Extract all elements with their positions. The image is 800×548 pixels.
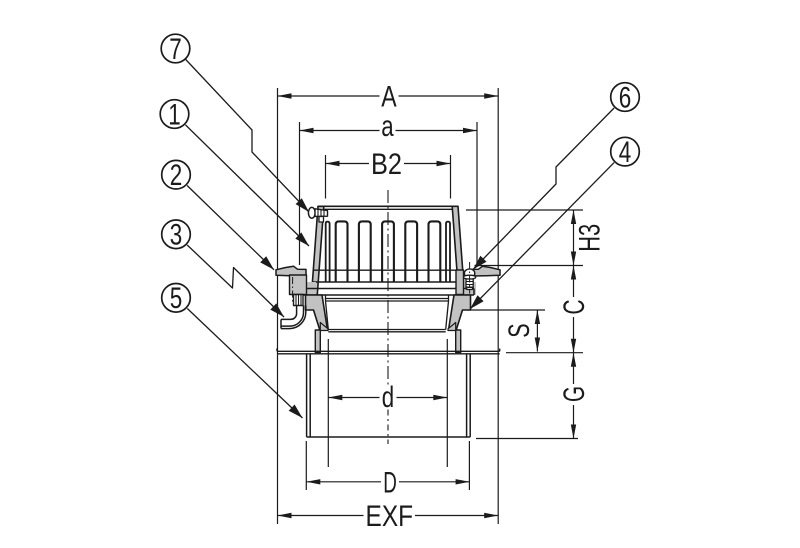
J-hook end cap bbox=[280, 319, 282, 328]
bowl upper step bbox=[326, 298, 449, 300]
extension line left (D) bbox=[305, 441, 307, 490]
J-hook middle contour bbox=[281, 306, 304, 327]
svg-text:d: d bbox=[382, 381, 394, 414]
callout circle 3 bbox=[162, 220, 191, 249]
seat gray right bbox=[460, 282, 476, 295]
roof deck plate bbox=[277, 350, 500, 352]
reference line H3 bottom / C top bbox=[475, 265, 584, 267]
J-hook outer contour bbox=[281, 306, 306, 329]
grate inner band line bbox=[313, 269, 463, 271]
body wall left bbox=[306, 295, 328, 330]
leader line 6 bbox=[473, 108, 614, 270]
grate screw left pin bbox=[319, 217, 324, 223]
grate top rim bbox=[318, 205, 458, 207]
svg-text:D: D bbox=[383, 466, 397, 499]
flange wing right bbox=[470, 266, 500, 276]
svg-text:3: 3 bbox=[170, 219, 183, 252]
leader line 4 bbox=[470, 163, 614, 309]
deck plate lip left bbox=[276, 348, 278, 351]
svg-text:G: G bbox=[558, 386, 591, 402]
spigot foot flare right bbox=[448, 323, 456, 331]
extension line right (A / ExF) bbox=[497, 88, 499, 524]
dimension ExF bbox=[278, 515, 499, 517]
svg-text:2: 2 bbox=[170, 159, 183, 192]
deck plate lip right bbox=[499, 349, 501, 352]
bolt right shaft bbox=[466, 279, 473, 287]
dimension d bbox=[328, 397, 447, 399]
sleeve wall right bbox=[466, 354, 468, 437]
grate slot partial left bbox=[326, 222, 330, 282]
dimension D bbox=[306, 481, 469, 483]
extension line left (B2) bbox=[325, 155, 327, 199]
dimension C bbox=[573, 266, 575, 353]
wing hanger left bbox=[290, 275, 307, 295]
sleeve wall left bbox=[306, 354, 308, 437]
extension line right (B2) bbox=[450, 155, 452, 199]
seat gray left bbox=[302, 282, 316, 295]
center line (vertical axis) bbox=[387, 190, 389, 388]
svg-text:a: a bbox=[381, 110, 394, 143]
grate slot partial right bbox=[446, 222, 450, 282]
extension line right (d) bbox=[446, 339, 448, 467]
leader line 7 bbox=[185, 59, 309, 213]
reference line C bottom / G top bbox=[506, 352, 583, 354]
svg-text:4: 4 bbox=[619, 136, 632, 169]
extension line right (D) bbox=[468, 441, 470, 490]
bolt right centerline bbox=[469, 262, 471, 294]
svg-text:7: 7 bbox=[169, 33, 182, 66]
svg-text:A: A bbox=[381, 80, 396, 113]
bolt right washer bbox=[464, 275, 476, 279]
J-hook inner contour bbox=[281, 306, 297, 320]
dimension S bbox=[536, 310, 538, 352]
grate bottom ring bbox=[312, 281, 464, 283]
dimension B2 bbox=[326, 163, 451, 165]
svg-text:C: C bbox=[558, 300, 591, 315]
bowl side left bbox=[326, 301, 329, 330]
grate slots bbox=[336, 221, 348, 282]
bowl bottom step bbox=[328, 329, 445, 331]
reference line G bottom bbox=[476, 438, 578, 440]
grate left side bar bbox=[312, 206, 324, 294]
leader line 3 bbox=[187, 245, 284, 317]
callout circle 1 bbox=[160, 100, 189, 129]
bowl side right bbox=[446, 301, 449, 330]
svg-text:B2: B2 bbox=[371, 148, 402, 181]
dimension A bbox=[278, 95, 499, 97]
callout circle 6 bbox=[611, 83, 640, 112]
grate screw left shaft bbox=[315, 209, 328, 217]
body wall right bbox=[449, 295, 471, 330]
callout circle 7 bbox=[161, 34, 190, 63]
svg-text:S: S bbox=[503, 323, 536, 337]
bolt right foot bbox=[467, 287, 473, 289]
svg-text:6: 6 bbox=[619, 81, 632, 114]
callout circle 2 bbox=[162, 160, 191, 189]
dimension H3 bbox=[573, 210, 575, 266]
svg-text:H3: H3 bbox=[574, 224, 607, 252]
clamp bolt left bbox=[294, 295, 304, 306]
dimension G bbox=[573, 353, 575, 439]
reference line H3 top bbox=[466, 209, 583, 211]
extension line left (d) bbox=[327, 339, 329, 467]
leader line 5 bbox=[187, 309, 302, 419]
reference line S top bbox=[468, 309, 545, 311]
extension line right (a) bbox=[476, 122, 478, 266]
extension line left (a) bbox=[299, 122, 301, 265]
flange wing left bbox=[276, 266, 306, 276]
extension line left (A / ExF) bbox=[277, 88, 279, 524]
callout circle 5 bbox=[162, 284, 191, 313]
sleeve bottom bbox=[307, 436, 471, 438]
svg-text:1: 1 bbox=[168, 98, 181, 131]
callout circle 4 bbox=[611, 137, 640, 166]
grate right side bar bbox=[452, 206, 464, 294]
outlet spigot wall right bbox=[456, 330, 461, 353]
dimension a bbox=[300, 130, 478, 132]
spigot foot flare left bbox=[320, 323, 328, 331]
svg-text:EXF: EXF bbox=[366, 500, 414, 533]
bolt right head bbox=[464, 269, 474, 278]
leader line 2 bbox=[187, 186, 274, 270]
svg-text:5: 5 bbox=[170, 282, 183, 315]
grate screw left head bbox=[308, 207, 315, 218]
body rim stub right bbox=[456, 270, 464, 295]
outlet spigot wall left bbox=[315, 330, 320, 353]
clamp bolt centerline left bbox=[292, 277, 294, 304]
body seat band bbox=[302, 288, 474, 290]
leader line 1 bbox=[186, 125, 310, 246]
